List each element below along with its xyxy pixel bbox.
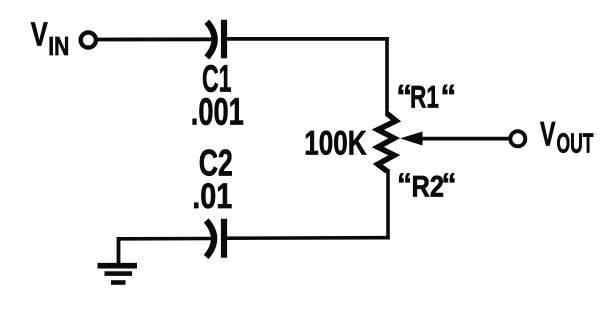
wire vertical from corner down to potentiometer top [385,37,389,116]
capacitor C1 [207,20,224,58]
ground [98,266,138,283]
svg-text:.001: .001 [191,92,244,134]
wire from C2 to ground stub [117,237,212,241]
node VIN label [31,16,70,61]
svg-text:R1: R1 [410,79,439,115]
wire vertical from potentiometer bottom to bottom-right corner [386,169,390,240]
svg-text:R2: R2 [412,171,445,204]
wire ground stub vertical [117,237,121,264]
wire from VIN terminal to C1 [98,37,215,41]
terminal VIN [81,32,96,47]
svg-text:100K: 100K [304,125,366,163]
capacitor C2 [206,219,224,258]
terminal VOUT [510,131,525,146]
svg-text:V: V [31,16,48,53]
wire from bottom-right corner to C2 [227,236,390,240]
wiper arrow of potentiometer [400,132,510,146]
svg-text:V: V [540,115,556,153]
svg-text:“: “ [441,77,457,113]
svg-text:“: “ [397,168,412,201]
node VOUT label [540,115,594,158]
wire from C1 to top-right corner [227,37,389,41]
svg-text:.01: .01 [192,177,232,216]
svg-text:OUT: OUT [557,128,594,159]
svg-text:IN: IN [48,33,69,61]
svg-text:“: “ [442,168,457,201]
potentiometer R1/R2 100K (zigzag body) [378,114,396,172]
